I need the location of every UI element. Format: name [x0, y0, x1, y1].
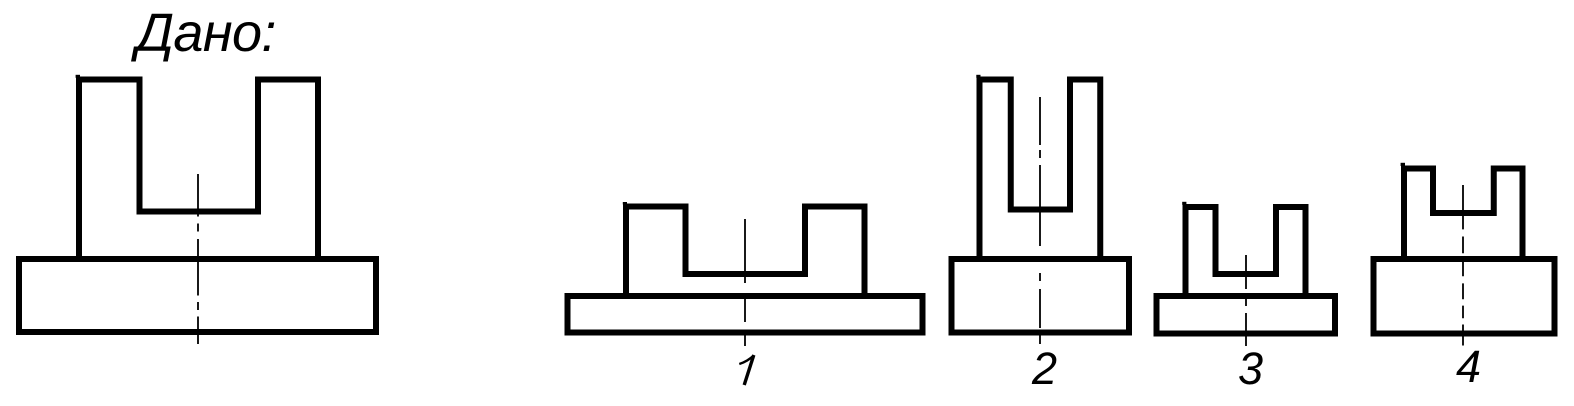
svg-text:2: 2 [1031, 343, 1057, 394]
given view corner overshoot [76, 75, 80, 78]
option 2 U-shaped body [980, 80, 1101, 260]
option 1 corner overshoot [623, 202, 627, 205]
given view U-shaped body [79, 80, 318, 260]
option 3 corner overshoot [1182, 202, 1186, 205]
svg-text:4: 4 [1456, 341, 1481, 392]
option 3 base plate [1157, 296, 1336, 334]
option 2 base plate [952, 259, 1130, 333]
option 2 centerline [1039, 97, 1041, 344]
option 1 U-shaped body [626, 207, 865, 297]
option 4 centerline [1462, 185, 1464, 346]
option 1 centerline [744, 219, 746, 346]
option 3 centerline [1245, 255, 1247, 346]
svg-text:3: 3 [1238, 343, 1263, 394]
option 1 base plate [568, 296, 923, 333]
given view centerline [197, 174, 199, 344]
option 4 corner overshoot [1401, 163, 1405, 166]
svg-text:Дано:: Дано: [131, 3, 276, 63]
given view base plate [19, 259, 376, 332]
option 1 label [744, 355, 754, 385]
option 3 U-shaped body [1186, 207, 1306, 296]
option 2 corner overshoot [976, 75, 980, 78]
option 4 base plate [1374, 259, 1555, 334]
option 4 U-shaped body [1404, 169, 1523, 260]
